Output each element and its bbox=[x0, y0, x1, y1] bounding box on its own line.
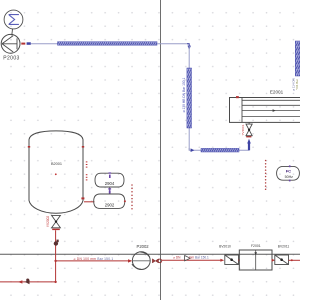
svg-text:2904: 2904 bbox=[105, 181, 115, 186]
svg-text:P2003: P2003 bbox=[3, 56, 19, 62]
butterfly valve BV2011 bbox=[275, 255, 289, 265]
red dot after BV2011 bbox=[291, 259, 293, 261]
svg-text:50Hz: 50Hz bbox=[285, 175, 294, 179]
svg-text:YV2002: YV2002 bbox=[46, 216, 50, 228]
wire between capsules bbox=[109, 187, 111, 194]
insulated pipe right edge top bbox=[295, 41, 300, 76]
red nozzle right vessel bbox=[82, 146, 84, 148]
svg-text:BV2011: BV2011 bbox=[278, 245, 290, 249]
arrow down on vertical pipe bbox=[188, 46, 191, 50]
purple tick bottom FC bbox=[289, 180, 291, 182]
red dotted signal line x265 bbox=[265, 160, 267, 190]
tag capsule 2904 bbox=[95, 173, 124, 187]
corner dot bottom return bbox=[54, 281, 56, 283]
svg-text:mm Bar 150.1: mm Bar 150.1 bbox=[189, 255, 209, 259]
red nozzle left vessel bbox=[28, 146, 30, 148]
arrow into BV2011 bbox=[272, 259, 276, 262]
reducer on discharge line bbox=[185, 256, 191, 261]
heat exchanger E2001 shell bbox=[230, 98, 302, 123]
svg-text:B2001: B2001 bbox=[51, 162, 62, 166]
wire red line after BV2011 bbox=[289, 259, 301, 261]
purple marks between capsules bbox=[108, 188, 111, 193]
red reducer at pump P2003 outlet bbox=[21, 43, 25, 45]
svg-text:2902: 2902 bbox=[105, 202, 115, 207]
controller FC 50Hz capsule bbox=[277, 166, 300, 180]
arrow right after corner bbox=[191, 148, 195, 152]
red tick marks right of vessel group1 bbox=[86, 161, 88, 167]
wire corner down bbox=[187, 44, 189, 46]
motor M of pump P2003 bbox=[4, 10, 23, 29]
red mark center vessel bbox=[55, 173, 57, 175]
red valve at pump P2002 outlet bbox=[152, 259, 161, 263]
wire bottom corner to right bbox=[189, 144, 249, 150]
svg-text:BV2010: BV2010 bbox=[219, 245, 231, 249]
red dotted signal line x132 bbox=[131, 184, 133, 209]
red nozzle right vessel lower bbox=[81, 197, 84, 199]
vessel B2001 bbox=[29, 131, 83, 213]
check valve on return line bbox=[25, 279, 30, 285]
purple marks top of 2904 bbox=[109, 172, 112, 178]
junction dot red lines bbox=[54, 260, 56, 262]
tag capsule 2902 bbox=[94, 194, 125, 208]
wire thick stub to valve bbox=[248, 144, 250, 151]
red nozzle on E2001 top bbox=[236, 96, 239, 98]
sample point symbol on drain line bbox=[54, 240, 59, 246]
wire red vessel to tag 2902 bbox=[84, 201, 95, 203]
svg-text:YV2001: YV2001 bbox=[241, 124, 245, 135]
valve under E2001 bbox=[246, 122, 252, 135]
svg-text:E2001: E2001 bbox=[270, 90, 284, 95]
svg-text:⌀ 139 HB DN Bar 150.1: ⌀ 139 HB DN Bar 150.1 bbox=[182, 77, 186, 112]
wire vertical pipe bbox=[188, 46, 190, 150]
svg-text:Y04 Bar: Y04 Bar bbox=[295, 79, 299, 90]
red tick marks right of vessel group2 bbox=[86, 174, 88, 180]
blue fitting on pipe bbox=[27, 42, 31, 45]
wire red discharge line bbox=[162, 259, 222, 261]
wire motor to pump bbox=[11, 29, 14, 36]
insulated pipe segment vertical bbox=[187, 68, 192, 128]
arrow into BV2010 bbox=[220, 259, 224, 262]
svg-text:FC: FC bbox=[286, 168, 291, 173]
purple tick top FC bbox=[289, 165, 291, 167]
insulated pipe segment horizontal lower bbox=[201, 148, 239, 152]
filter F2001 bbox=[239, 250, 272, 270]
pump P2002 bbox=[132, 252, 150, 270]
red dot right of 2902 bbox=[124, 200, 126, 202]
wire red bottom return line bbox=[0, 281, 56, 283]
svg-text:F2001: F2001 bbox=[251, 244, 261, 248]
valve under vessel B2001 bbox=[52, 215, 61, 227]
butterfly valve BV2010 bbox=[225, 255, 239, 265]
red connector BV2010 to F2001 bbox=[238, 259, 240, 261]
pump P2003 bbox=[1, 34, 20, 53]
wire red drain line down bbox=[55, 230, 57, 281]
arrow up into valve bbox=[247, 139, 251, 144]
wire red suction line to pump P2002 bbox=[56, 260, 131, 262]
arrow in tube E2001 bbox=[273, 109, 276, 112]
red flange under valve B2001 bbox=[52, 229, 60, 231]
insulated pipe segment horizontal top bbox=[58, 42, 158, 46]
arrow into pump P2002 bbox=[128, 259, 132, 262]
wire thin pipe to insulated segment bbox=[31, 43, 58, 45]
red flange under valve bbox=[246, 136, 251, 138]
wire thin pipe to corner bbox=[157, 43, 189, 45]
svg-text:⌀ DN 100 mm Bar 150.1: ⌀ DN 100 mm Bar 150.1 bbox=[74, 257, 114, 261]
arrow left on return line bbox=[18, 280, 22, 283]
svg-text:P2002: P2002 bbox=[137, 244, 150, 249]
svg-text:⌀ DN: ⌀ DN bbox=[173, 255, 181, 259]
